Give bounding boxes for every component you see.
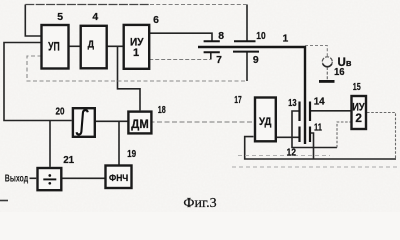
svg-text:2: 2 [355, 111, 362, 125]
svg-text:9: 9 [253, 55, 259, 66]
svg-text:10: 10 [256, 31, 266, 42]
svg-text:ФНЧ: ФНЧ [109, 173, 128, 183]
svg-text:Д: Д [88, 39, 95, 51]
svg-text:ДМ: ДМ [131, 119, 148, 131]
svg-text:20: 20 [56, 106, 65, 117]
svg-text:19: 19 [127, 149, 136, 160]
svg-text:15: 15 [353, 82, 361, 93]
svg-text:8: 8 [218, 31, 224, 42]
svg-text:21: 21 [63, 155, 74, 166]
svg-text:Фиг.3: Фиг.3 [183, 196, 216, 211]
svg-text:6: 6 [153, 15, 159, 26]
svg-text:14: 14 [314, 97, 325, 108]
svg-text:13: 13 [288, 98, 297, 109]
svg-text:1: 1 [283, 33, 289, 44]
svg-text:5: 5 [57, 12, 63, 23]
svg-text:УД: УД [259, 116, 272, 128]
svg-text:УП: УП [48, 40, 60, 54]
svg-text:17: 17 [234, 95, 242, 106]
svg-text:11: 11 [314, 123, 322, 134]
svg-text:Uв: Uв [338, 57, 352, 69]
svg-text:4: 4 [92, 12, 98, 23]
svg-text:7: 7 [216, 55, 222, 66]
svg-text:Выход: Выход [5, 173, 29, 184]
svg-text:12: 12 [286, 148, 296, 159]
svg-text:1: 1 [133, 47, 139, 59]
svg-text:18: 18 [158, 105, 166, 116]
